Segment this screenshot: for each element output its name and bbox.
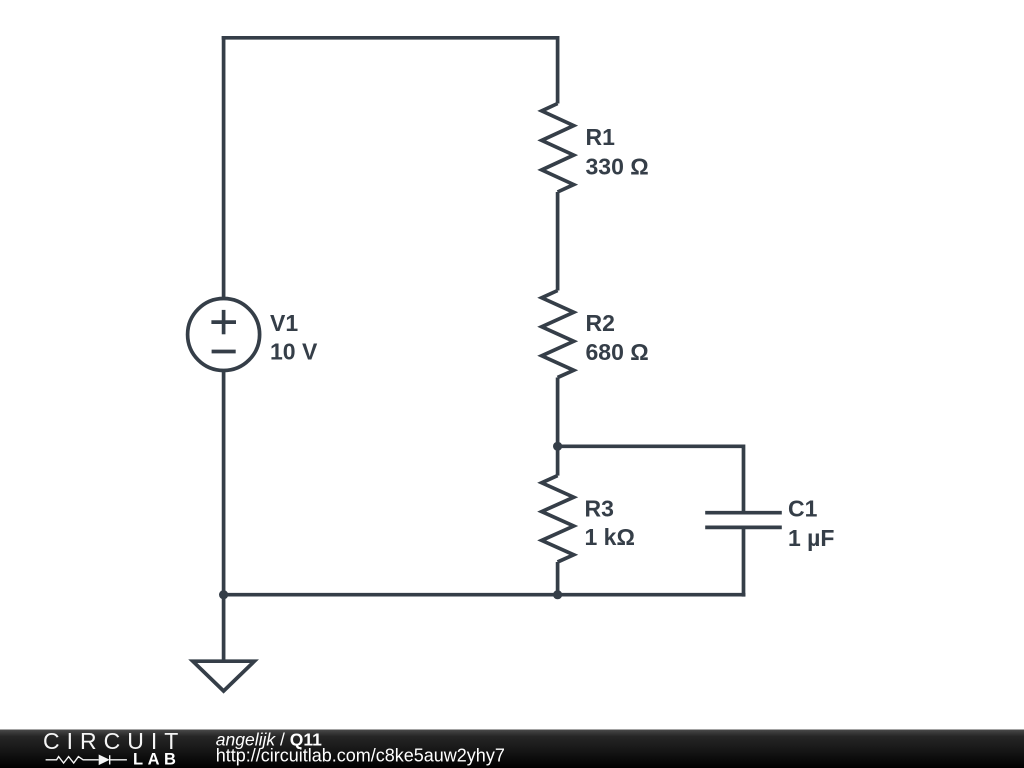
resistor R3 (542, 476, 574, 562)
wire R1 to R2 (556, 192, 560, 291)
voltage source V1 (188, 299, 260, 371)
capacitor C1 top wire (742, 445, 746, 513)
svg-text:C1: C1 (788, 496, 818, 522)
junction dot at V1/ground (219, 590, 228, 599)
svg-text:10 V: 10 V (270, 339, 318, 365)
svg-text:330 Ω: 330 Ω (586, 154, 649, 180)
node A junction dot (R2/R3/C1) (553, 442, 562, 451)
logo resistor-diode squiggle (46, 755, 127, 764)
resistor R2 (542, 291, 574, 378)
junction dot at R3 bottom (553, 590, 562, 599)
svg-text:1 kΩ: 1 kΩ (585, 524, 635, 550)
svg-text:R2: R2 (586, 310, 615, 336)
ground symbol (193, 661, 255, 691)
capacitor C1 top plate (705, 511, 782, 515)
wire R3 to bottom rail (556, 562, 560, 595)
wire bottom rail (224, 593, 746, 597)
wire V1 minus terminal down to bottom rail (222, 371, 226, 595)
capacitor C1 bottom wire (742, 527, 746, 596)
wire top rail (222, 36, 558, 40)
svg-text:LAB: LAB (133, 751, 180, 768)
svg-text:1 µF: 1 µF (788, 525, 834, 551)
wire to ground (222, 595, 226, 662)
logo diode triangle (99, 755, 110, 766)
svg-text:680 Ω: 680 Ω (586, 339, 649, 365)
wire node A to R3 (556, 446, 560, 475)
wire left vertical (top rail to V1 plus terminal) (222, 36, 226, 299)
capacitor C1 bottom plate (705, 526, 782, 530)
wire right vertical (top rail to R1) (556, 36, 560, 104)
wire R2 to node A (556, 378, 560, 447)
resistor R1 (542, 104, 574, 193)
wire node A to C1 (horizontal) (558, 444, 744, 448)
svg-text:R3: R3 (585, 495, 614, 521)
svg-text:V1: V1 (270, 310, 298, 336)
svg-text:http://circuitlab.com/c8ke5auw: http://circuitlab.com/c8ke5auw2yhy7 (216, 745, 505, 765)
svg-text:R1: R1 (586, 124, 616, 150)
